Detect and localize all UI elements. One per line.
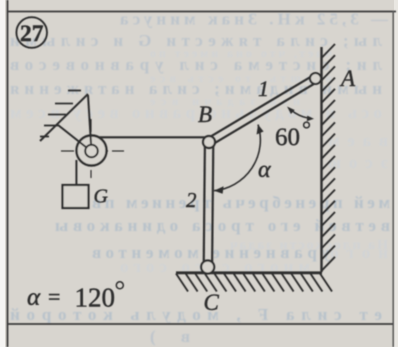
svg-text:α: α	[258, 157, 271, 183]
rod 1 (double line B to A)	[207, 75, 318, 145]
svg-text:чает, что она имеет по: чает, что она имеет по	[150, 46, 332, 60]
svg-text:B: B	[198, 102, 212, 127]
pin C	[201, 261, 214, 274]
label 60 degrees	[275, 122, 309, 151]
ground line at C	[176, 271, 322, 274]
pulley wheel	[77, 136, 107, 166]
pulley centerlines (dashed)	[61, 119, 124, 178]
pin A	[310, 73, 321, 84]
bracket triangle arms	[58, 95, 92, 152]
cord to weight	[75, 160, 77, 184]
bracket support slanted line	[40, 94, 88, 141]
svg-text:ет сила F , модуль которой: ет сила F , модуль которой	[10, 305, 382, 324]
svg-text:=: =	[48, 284, 60, 309]
label G	[94, 186, 109, 208]
wall (right)	[320, 47, 322, 272]
cord to B (horizontal)	[92, 136, 206, 138]
label B	[198, 102, 212, 127]
svg-text:27: 27	[20, 21, 44, 47]
svg-text:G: G	[94, 186, 109, 208]
svg-text:2: 2	[186, 188, 197, 212]
svg-text:120: 120	[75, 283, 116, 313]
label 2	[186, 188, 197, 212]
rod 2 (double line B to C)	[204, 143, 214, 266]
svg-text:C: C	[204, 290, 220, 315]
caption alpha = 120 degrees	[27, 282, 123, 313]
60 degree arc with arrows	[287, 107, 314, 122]
label A	[339, 66, 356, 91]
label 1	[258, 76, 269, 101]
ground hatching	[176, 274, 332, 292]
svg-text:1: 1	[258, 76, 269, 101]
svg-text:α: α	[27, 284, 41, 311]
pin B	[203, 136, 215, 148]
alpha angle arc with arrows	[214, 124, 264, 194]
bracket support hatching	[40, 91, 81, 137]
weight G box	[63, 185, 89, 208]
problem number badge 27	[16, 17, 47, 48]
label C	[204, 290, 220, 315]
svg-text:60: 60	[275, 124, 300, 151]
wall hatching	[322, 44, 336, 271]
pulley hub	[85, 145, 98, 158]
svg-text:A: A	[339, 66, 356, 91]
label alpha	[258, 157, 271, 183]
